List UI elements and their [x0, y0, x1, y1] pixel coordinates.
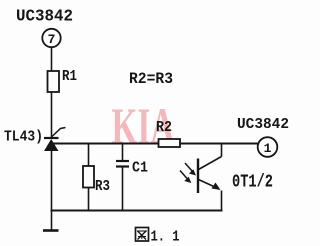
pin circle 1 — [258, 137, 278, 157]
resistor R1 — [48, 68, 78, 92]
pin circle 7 — [42, 29, 60, 47]
ground — [43, 211, 59, 231]
svg-text:1. 1: 1. 1 — [151, 229, 180, 246]
svg-text:UC3842: UC3842 — [16, 8, 73, 27]
wire R1 to TL431 — [51, 92, 53, 138]
phototransistor OT1/2 — [198, 144, 222, 211]
wire TL431 anode down — [51, 151, 53, 211]
svg-text:TL43): TL43) — [4, 129, 43, 146]
resistor R2 — [156, 119, 180, 147]
caption 图1.1 — [136, 228, 180, 246]
svg-text:0T1/2: 0T1/2 — [232, 173, 273, 193]
capacitor C1 — [116, 144, 148, 211]
wire mid rail left — [52, 143, 159, 145]
bottom rail wire — [51, 209, 223, 211]
light arrow 1 — [185, 163, 196, 176]
svg-text:UC3842: UC3842 — [237, 116, 289, 133]
svg-text:C1: C1 — [132, 160, 148, 177]
wire mid rail right — [180, 143, 258, 145]
svg-text:R3: R3 — [95, 178, 110, 195]
TL431 U1 — [4, 128, 66, 152]
svg-text:R1: R1 — [62, 68, 77, 85]
light arrow 2 — [180, 171, 191, 184]
svg-text:R2=R3: R2=R3 — [129, 70, 173, 88]
wire pin7 to R1 — [51, 48, 53, 72]
svg-text:R2: R2 — [156, 119, 172, 136]
svg-text:1: 1 — [264, 141, 272, 156]
resistor R3 — [83, 144, 110, 211]
svg-text:7: 7 — [48, 32, 56, 47]
